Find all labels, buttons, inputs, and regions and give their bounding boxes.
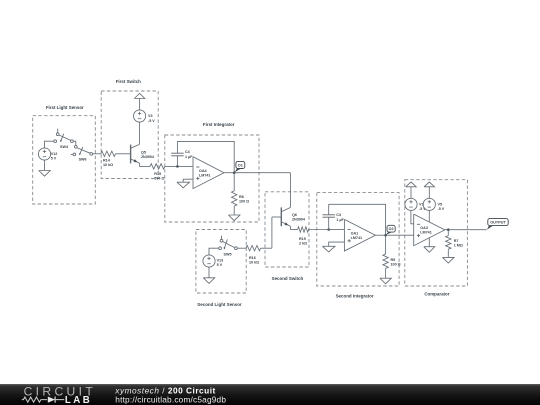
svg-text:Second Integrator: Second Integrator (336, 293, 374, 298)
svg-text:R8: R8 (239, 195, 244, 199)
svg-text:1 MΩ: 1 MΩ (454, 244, 463, 248)
svg-text:100 Ω: 100 Ω (239, 200, 249, 204)
svg-text:V3: V3 (148, 114, 153, 118)
svg-text:V12: V12 (51, 152, 58, 156)
svg-text:Second Light Sensor: Second Light Sensor (197, 302, 242, 307)
svg-text:First Switch: First Switch (116, 79, 141, 84)
svg-text:LM741: LM741 (199, 174, 210, 178)
svg-text:5 V: 5 V (51, 157, 57, 161)
svg-text:-5 V: -5 V (148, 119, 155, 123)
svg-text:R5: R5 (391, 258, 396, 262)
svg-text:http://circuitlab.com/c5ag9db: http://circuitlab.com/c5ag9db (115, 395, 226, 405)
svg-text:OA4: OA4 (199, 169, 208, 173)
svg-text:Comparator: Comparator (424, 292, 449, 297)
svg-text:Second Switch: Second Switch (272, 276, 304, 281)
svg-text:R14: R14 (103, 158, 111, 162)
svg-text:1 µF: 1 µF (185, 155, 193, 159)
svg-text:OA3: OA3 (420, 226, 428, 230)
svg-text:5 V: 5 V (217, 263, 223, 267)
svg-text:V5: V5 (438, 202, 443, 206)
svg-text:10 kΩ: 10 kΩ (249, 261, 259, 265)
svg-text:R19: R19 (154, 172, 161, 176)
svg-text:OUTPUT: OUTPUT (490, 221, 506, 225)
svg-text:SW6: SW6 (79, 158, 87, 162)
svg-text:First Light Sensor: First Light Sensor (46, 105, 84, 110)
svg-text:SW4: SW4 (60, 145, 69, 149)
svg-text:C3: C3 (336, 213, 341, 217)
svg-text:SW5: SW5 (224, 253, 232, 257)
svg-text:Q6: Q6 (292, 213, 297, 217)
svg-text:2N3904: 2N3904 (292, 218, 306, 222)
svg-text:594 Ω: 594 Ω (154, 176, 164, 180)
svg-text:R16: R16 (249, 256, 256, 260)
svg-text:O2: O2 (389, 227, 394, 231)
svg-text:R15: R15 (299, 237, 306, 241)
svg-text:O1: O1 (238, 164, 243, 168)
svg-text:LM741: LM741 (351, 236, 362, 240)
svg-text:OA1: OA1 (351, 232, 359, 236)
svg-text:2 kΩ: 2 kΩ (299, 242, 307, 246)
svg-text:1 µF: 1 µF (336, 218, 344, 222)
svg-text:10 kΩ: 10 kΩ (103, 163, 113, 167)
svg-text:-5 V: -5 V (438, 207, 445, 211)
svg-text:LM741: LM741 (420, 231, 431, 235)
svg-text:Q5: Q5 (141, 151, 146, 155)
svg-text:First Integrator: First Integrator (203, 122, 235, 127)
svg-text:R7: R7 (454, 239, 459, 243)
svg-text:2N3904: 2N3904 (141, 155, 155, 159)
svg-text:100 Ω: 100 Ω (391, 263, 401, 267)
svg-text:V13: V13 (217, 259, 224, 263)
svg-text:LAB: LAB (65, 395, 92, 405)
